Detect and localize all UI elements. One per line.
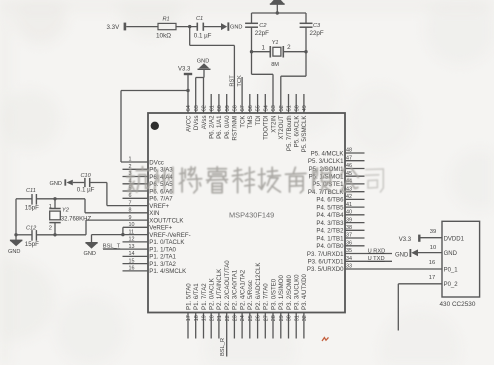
pin 21 P2. 1/TAINCLK (bottom) xyxy=(216,269,223,339)
capacitor C12 15pF xyxy=(25,225,39,248)
pin 5 P6. 6/A6 (left) xyxy=(123,186,174,196)
pin 9 XOUT/TCLK (left) xyxy=(129,215,184,225)
pin 13 P1. 1/TA0 (left) xyxy=(129,244,177,254)
pin 33 P3. 5/URXD0 (right) xyxy=(307,264,352,274)
pin 49 P5. 5/SMCLK (top) xyxy=(301,94,308,152)
capacitor C1 0.1uF xyxy=(194,16,212,40)
pin 8 XIN (left) xyxy=(129,208,160,218)
wire left cap bus xyxy=(16,199,32,241)
wire AVCC stub xyxy=(187,91,189,114)
pin 23 P2. 3/CA0/TA1 (bottom) xyxy=(232,269,239,338)
wire XT2IN to pin 53 xyxy=(252,52,274,113)
pin 12 P1. 0/TACLK (left) xyxy=(123,237,185,247)
pin 20 P2. 0/ACLK (bottom) xyxy=(209,278,216,338)
wire U_TXD from pin 34 xyxy=(345,256,392,262)
node cap bus dot xyxy=(14,233,17,236)
pin 52 XT2OUT (top) xyxy=(278,105,285,139)
power port V3.3 near AVCC xyxy=(178,66,192,90)
wire XT2OUT to pin 52 xyxy=(281,52,306,113)
pin 62 AVss (top) xyxy=(201,105,208,129)
pin 61 P6. 2/A2 (top) xyxy=(209,94,216,139)
crystal Y1 8M xyxy=(252,40,307,68)
pin 51 P5. 7/TBouth (top) xyxy=(286,94,293,151)
node Y2 bottom dot xyxy=(53,233,56,236)
pin 7 VREF+ (left) xyxy=(129,200,170,210)
pin 39 P4. 3/TB3 (right) xyxy=(316,217,364,227)
wire C12 to Y2 bottom xyxy=(37,234,55,236)
wire VeREF+ pin 10 xyxy=(123,227,148,234)
pin 10 GND xyxy=(430,245,458,257)
pin 40 P4. 4/TB4 (right) xyxy=(316,210,364,220)
pin 57 TCK (top) xyxy=(239,105,246,127)
pin 17 P1. 5/TA0 (bottom) xyxy=(185,283,192,339)
wire XOUT net to pin 9 xyxy=(55,220,148,235)
pin 53 XT2IN (top) xyxy=(270,105,277,132)
pin 10 VeREF+ (left) xyxy=(129,222,173,232)
resistor R1 10k xyxy=(156,17,176,40)
pin 43 P4. 7/TBCLK (right) xyxy=(308,186,365,196)
pin 50 P5. 6/ACLK (top) xyxy=(294,94,301,147)
connector J1 430 CC2530 xyxy=(440,221,480,308)
wire C11 to XIN node xyxy=(37,198,55,200)
ground GND at connector xyxy=(395,249,442,258)
pin 35 P3. 7/URXD1 (right) xyxy=(307,248,352,258)
wire XIN net to pin 8 xyxy=(55,199,148,213)
wire P0_2 down xyxy=(398,284,442,331)
node crystal-GND junction xyxy=(276,11,279,14)
node RST junction dot xyxy=(188,25,191,28)
wire DVss AVss tie to GND xyxy=(196,78,204,114)
pin 60 P6. 1/A1 (top) xyxy=(216,94,223,139)
ground GND left of C10 xyxy=(50,179,73,187)
node XT2OUT dot xyxy=(304,50,307,53)
ground GND above AVss/DVss xyxy=(197,58,211,77)
net label BSL_T and wire to pin 13 xyxy=(103,243,148,249)
wire TCK stub pin 57 xyxy=(241,77,243,113)
pin 18 P1. 6/TA1 (bottom) xyxy=(193,283,200,339)
wire GND to C10 xyxy=(73,182,85,184)
pin 4 P6. 5/A5 (left) xyxy=(123,179,174,189)
pin 31 P3. 3/UCLK0 (bottom) xyxy=(294,274,301,339)
pin 22 P2. 2/CAOUT/TA0 (bottom) xyxy=(224,260,231,357)
pin 3 P6. 4/A4 (left) xyxy=(123,171,174,181)
pin 15 P1. 3/TA2 (left) xyxy=(123,258,177,268)
ground GND right of C1 xyxy=(221,22,242,30)
node XT2IN dot xyxy=(250,50,253,53)
pin 46 P5. 2/SOMI1 (right) xyxy=(309,163,365,173)
pin 29 P3. 1/SIMO0 (bottom) xyxy=(278,275,285,339)
node Y2 top dot xyxy=(53,197,56,200)
pin 47 P5. 3/UCLK1 (right) xyxy=(308,155,365,165)
MCU U1 MSP430F149 body xyxy=(148,113,345,313)
ground GND above crystal Y1 xyxy=(270,0,285,13)
pin 39 DVDD1 xyxy=(430,229,465,243)
ground GND below cap bus xyxy=(8,240,22,255)
pin 19 P1. 7/TA2 (bottom) xyxy=(201,283,208,339)
pin 37 P4. 1/TB1 (right) xyxy=(316,233,364,243)
power port 3.3V xyxy=(107,23,127,31)
pin 32 P3. 4/UTXD0 (bottom) xyxy=(301,273,308,338)
capacitor C11 15pF xyxy=(25,188,39,212)
crystal Y2 32.768KHZ xyxy=(49,199,92,235)
pin 1 DVcc (left) xyxy=(129,157,164,167)
pin 54 TDO/TDI (top) xyxy=(263,94,270,140)
pin 28 P3. 0/STE0 (bottom) xyxy=(270,278,277,338)
pin 38 P4. 2/TB2 (right) xyxy=(316,225,364,235)
capacitor C3 22pF xyxy=(300,13,324,52)
node VeREF tie dot xyxy=(121,233,124,236)
wire pin 33 to P0_1 xyxy=(345,268,442,270)
wire crystal top rail xyxy=(252,12,307,14)
wire C1 to GND xyxy=(204,26,221,28)
pin 2 P6. 3/A3 (left) xyxy=(123,164,174,174)
pin 17 P0_2 xyxy=(429,275,458,288)
capacitor C2 22pF xyxy=(245,13,269,52)
pin 59 P6. 0/A0 (top) xyxy=(224,94,231,139)
pin 45 P5. 1/SIMO1 (right) xyxy=(309,171,365,181)
pin 42 P4. 6/TB6 (right) xyxy=(316,194,364,204)
ground GND below VREF- xyxy=(84,243,98,257)
pin 58 RST/NMI (top) xyxy=(232,105,239,140)
pin 44 P5. 0/STE1 (right) xyxy=(312,179,364,189)
pin 56 TMS (top) xyxy=(247,94,254,128)
pin 30 P3. 2/SOMI0 (bottom) xyxy=(286,275,293,339)
pin 24 P2. 4/CA1/TA2 (bottom) xyxy=(239,269,246,338)
pin 26 P2. 6/ADC12CLK (bottom) xyxy=(255,263,262,339)
pin 36 P4. 0/TB0 (right) xyxy=(316,241,364,251)
wire U_RXD from pin 35 xyxy=(345,248,392,254)
pin 11 VREF-/VeREF- (left) xyxy=(129,229,191,239)
wire C10 to VREF+ pin 7 xyxy=(90,183,148,206)
pin 34 P3. 6/UTXD1 (right) xyxy=(308,256,352,266)
pin 41 P4. 5/TB5 (right) xyxy=(316,202,364,212)
wire RST net from junction to pin 58 xyxy=(190,27,235,113)
pin 55 TDI (top) xyxy=(255,94,262,125)
wire VREF- pin 11 to GND xyxy=(92,235,149,243)
wire 3.3V to R1 xyxy=(126,26,158,28)
pin 25 P2. 5/Rosc (bottom) xyxy=(247,280,254,338)
red artifact mark xyxy=(322,337,329,341)
pin 63 DVss (top) xyxy=(193,105,200,130)
pin 48 P5. 4/MCLK (right) xyxy=(311,148,365,158)
pin 16 P0_1 xyxy=(429,260,458,274)
pin 6 P6. 7/A7 (left) xyxy=(123,193,174,203)
wire V3.3 to DVcc pin 1 xyxy=(121,91,188,163)
node AVCC junction xyxy=(186,89,189,92)
pin 64 AVCC (top) xyxy=(185,105,192,132)
pin 27 P2. 7/TA0 (bottom) xyxy=(263,283,270,339)
pin 16 P1. 4/SMCLK (left) xyxy=(123,266,187,276)
wire R1 to C1 xyxy=(176,26,197,28)
capacitor C10 0.1uF xyxy=(77,173,95,193)
pin 14 P1. 2/TA1 (left) xyxy=(123,251,177,261)
power port V3.3 at connector xyxy=(399,235,442,243)
